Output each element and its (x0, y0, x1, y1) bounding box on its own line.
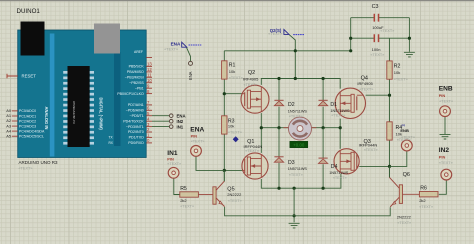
wire D4 column (322, 128, 324, 189)
svg-text:11: 11 (147, 73, 152, 78)
svg-text:ATMEGA328P-PU: ATMEGA328P-PU (72, 101, 76, 124)
svg-text:«TEXT»: «TEXT» (19, 167, 33, 171)
pin stub A4 (12, 130, 18, 132)
svg-text:ENA: ENA (171, 42, 181, 47)
svg-text:ARDUINO UNO R3: ARDUINO UNO R3 (19, 160, 59, 165)
svg-text:12: 12 (147, 67, 152, 72)
Arduino board body (18, 30, 147, 158)
svg-text:«TEXT»: «TEXT» (164, 48, 178, 52)
svg-text:ENB: ENB (439, 86, 453, 93)
svg-text:DUINO1: DUINO1 (17, 8, 41, 15)
svg-text:1N5711WS: 1N5711WS (330, 109, 350, 113)
svg-text:«TEXT»: «TEXT» (244, 83, 258, 87)
diode D4 (318, 158, 327, 163)
wire D2 column (278, 79, 280, 128)
svg-text:R1: R1 (229, 63, 236, 69)
svg-text:PC0/ADC0: PC0/ADC0 (19, 109, 36, 113)
pin stub A1 (12, 115, 18, 117)
wire arduino pin3 to IN1 (152, 126, 169, 128)
svg-text:C3: C3 (372, 4, 379, 10)
svg-text:IRFP044N: IRFP044N (359, 142, 378, 147)
wire ENA terminal to gate column (196, 156, 224, 170)
svg-text:PIN: PIN (439, 93, 446, 98)
terminal ENA top (default) (189, 61, 193, 65)
terminal IN2 (PIN) (441, 169, 452, 180)
svg-text:PC1/ADC1: PC1/ADC1 (19, 114, 36, 118)
wire ENA top terminal (186, 47, 190, 61)
wire R5 to Q5 base (198, 194, 213, 196)
svg-text:ENA: ENA (188, 71, 193, 80)
node D1 top junction (322, 77, 325, 80)
IC chip body (68, 66, 90, 147)
svg-text:«TEXT»: «TEXT» (289, 114, 303, 118)
svg-text:«TEXT»: «TEXT» (167, 162, 181, 166)
Arduino dark stripe (114, 52, 121, 146)
svg-text:A5: A5 (6, 133, 11, 138)
node motor right junction (339, 126, 342, 129)
svg-text:PIN: PIN (167, 157, 174, 162)
svg-text:PD0/RXD: PD0/RXD (128, 141, 144, 145)
pin stub 8 (146, 93, 152, 95)
svg-text:PC4/ADC4/SDA: PC4/ADC4/SDA (19, 129, 45, 133)
svg-text:1N5711WS: 1N5711WS (329, 171, 349, 175)
resistor R2 body (387, 61, 392, 79)
svg-text:IRF4905: IRF4905 (357, 81, 373, 86)
transistor Q3 (MOSFET) (334, 149, 359, 174)
svg-text:PC2/ADC2: PC2/ADC2 (19, 119, 36, 123)
transistor Q5 (NPN 2N2222) (213, 181, 225, 206)
svg-text:PIN: PIN (191, 133, 198, 138)
transistor Q4 (MOSFET) (335, 88, 365, 118)
wire Q1 gate (224, 169, 242, 171)
svg-text:«TEXT»: «TEXT» (359, 87, 373, 91)
wire D3 column (278, 128, 280, 189)
pin stub A0 (12, 110, 18, 112)
svg-text:«TEXT»: «TEXT» (333, 176, 347, 180)
node Q2 gate junction (223, 92, 226, 95)
svg-text:ENA: ENA (190, 126, 204, 133)
pin stub 1 (146, 136, 152, 138)
pin stub RESET (7, 74, 18, 78)
pin stub A5 (12, 135, 18, 137)
svg-text:1N5711WS: 1N5711WS (288, 109, 308, 113)
pin stub 5 (146, 115, 152, 117)
svg-text:PD7/AIN1: PD7/AIN1 (128, 103, 144, 107)
transistor Q1 (MOSFET) (242, 153, 268, 179)
svg-text:IN2: IN2 (439, 147, 450, 154)
resistor R5 body (180, 192, 199, 197)
svg-text:13: 13 (147, 62, 152, 67)
wire Q2 gate (224, 93, 242, 95)
svg-text:«TEXT»: «TEXT» (191, 140, 205, 144)
node D1 motor junction (322, 126, 325, 129)
svg-text:1N5711WS: 1N5711WS (288, 167, 308, 171)
transistor Q2 (MOSFET) (241, 85, 269, 113)
pin stub 2 (146, 131, 152, 133)
svg-text:«TEXT»: «TEXT» (397, 138, 411, 142)
svg-text:D1: D1 (330, 102, 337, 108)
wire C3 leads (351, 17, 410, 19)
wire probe drop (289, 35, 295, 79)
svg-text:AREF: AREF (134, 50, 143, 54)
wire right gate column (389, 38, 391, 177)
svg-text:IRF4905: IRF4905 (243, 76, 259, 81)
pin stub A2 (12, 120, 18, 122)
probe flag Q2(S) (284, 29, 289, 34)
resistor R1 body (222, 61, 227, 79)
svg-text:IN1: IN1 (177, 124, 184, 129)
svg-text:10k: 10k (394, 70, 400, 75)
node D2 motor junction (277, 126, 280, 129)
wire Q4 gate (366, 94, 390, 96)
diode D1 (318, 100, 327, 105)
svg-text:Q2: Q2 (248, 70, 255, 76)
svg-text:PIN: PIN (439, 154, 446, 159)
pin stub 4 (146, 120, 152, 122)
terminal ENB (PIN) (440, 106, 451, 117)
capacitor C3 (374, 14, 378, 22)
svg-text:PD1/TXD: PD1/TXD (129, 136, 145, 140)
terminal ENB net (PIN) (401, 140, 412, 151)
svg-text:Q6: Q6 (403, 172, 410, 178)
origin marker diamond (233, 136, 239, 142)
svg-text:PC5/ADC5/SCL: PC5/ADC5/SCL (19, 135, 44, 139)
wire C2 leads (351, 37, 410, 39)
wire top source rail (261, 79, 340, 89)
svg-text:PD2/INT0: PD2/INT0 (128, 130, 144, 134)
svg-text:10: 10 (147, 78, 152, 83)
wire Q6 collector link (389, 166, 391, 177)
svg-text:IN2: IN2 (177, 119, 184, 124)
wire R6 to Q6 base (403, 193, 420, 195)
pin stub 12 (146, 71, 152, 73)
node Q3 gate junction (388, 165, 391, 168)
svg-text:R6: R6 (420, 186, 427, 192)
wire IN2 to R6 (439, 180, 447, 194)
svg-text:«TEXT»: «TEXT» (397, 221, 411, 225)
wire emitter rail (225, 207, 391, 216)
node D4 bottom junction (322, 187, 325, 190)
node D2 top junction (277, 77, 280, 80)
svg-text:PB4/MISO: PB4/MISO (127, 70, 144, 74)
node motor left junction (260, 126, 263, 129)
wire arduino pin4 to IN2 (152, 120, 169, 122)
svg-text:«TEXT»: «TEXT» (331, 114, 345, 118)
svg-text:«TEXT»: «TEXT» (370, 53, 384, 57)
svg-text:~PD6/AIN0: ~PD6/AIN0 (126, 109, 144, 113)
terminal ENA (PIN) (191, 146, 202, 157)
node probe-source junction (294, 77, 297, 80)
svg-text:ENA: ENA (177, 114, 186, 119)
wire cap right column (408, 18, 410, 52)
wire motor right (311, 127, 340, 129)
wire label mark Q2(S) (293, 34, 304, 36)
node C2 left junction (349, 37, 352, 40)
wire ENB terminal to ground (444, 116, 446, 134)
svg-text:2N2222: 2N2222 (397, 214, 412, 219)
svg-text:PC3/ADC3: PC3/ADC3 (19, 124, 36, 128)
motor rpm display (290, 141, 308, 147)
wire motor left (261, 127, 288, 129)
svg-text:2k2: 2k2 (419, 198, 426, 203)
svg-text:2k2: 2k2 (180, 198, 187, 203)
svg-text:D2: D2 (288, 102, 295, 108)
terminal IN1 wire end (default) (169, 125, 173, 129)
svg-text:«TEXT»: «TEXT» (245, 149, 259, 153)
pin stub 10 (146, 82, 152, 84)
terminal IN2 wire end (default) (169, 119, 173, 123)
svg-text:D4: D4 (331, 164, 338, 170)
svg-text:R5: R5 (180, 186, 187, 192)
capacitor C2 (374, 34, 378, 42)
node probe-rail junction (294, 49, 297, 52)
wire arduino pin5 to ENA (152, 115, 169, 117)
node D3 bottom junction (277, 187, 280, 190)
svg-text:PB0/ICP1/CLKO: PB0/ICP1/CLKO (117, 92, 144, 96)
svg-text:~PB3/MOSI: ~PB3/MOSI (125, 76, 144, 80)
resistor R6 body (419, 192, 438, 197)
pin stub 0 (146, 142, 152, 144)
pin stub 11 (146, 76, 152, 78)
pin stub 3 (146, 126, 152, 128)
pin stub 7 (146, 104, 152, 106)
svg-text:+0.00: +0.00 (293, 142, 305, 147)
USB connector (21, 22, 45, 56)
wire IN1 to R5 (174, 178, 180, 194)
svg-text:«TEXT»: «TEXT» (380, 29, 394, 33)
svg-text:«TEXT»: «TEXT» (394, 78, 408, 82)
node Q4 gate junction (388, 94, 391, 97)
node C2 right junction (408, 37, 411, 40)
svg-text:«TEXT»: «TEXT» (180, 204, 194, 208)
pin stub 6 (146, 109, 152, 111)
svg-text:D3: D3 (288, 160, 295, 166)
svg-text:«TEXT»: «TEXT» (289, 173, 303, 177)
chip pins (63, 71, 94, 145)
svg-text:ANALOG IN: ANALOG IN (44, 107, 49, 130)
svg-text:~PB1: ~PB1 (135, 86, 144, 90)
wire label mark ENA (189, 44, 202, 46)
svg-text:~PB2/SS: ~PB2/SS (129, 81, 144, 85)
ground symbol top right (404, 52, 415, 57)
wire ground drop (293, 188, 295, 222)
svg-text:«TEXT»: «TEXT» (268, 32, 282, 36)
node rail cap junction (349, 49, 352, 52)
svg-text:DIGITAL (~PWM): DIGITAL (~PWM) (99, 98, 104, 131)
svg-text:«TEXT»: «TEXT» (439, 161, 453, 165)
wire sources rail (261, 174, 341, 188)
svg-text:100n: 100n (372, 47, 381, 52)
wire left drain column (260, 113, 262, 153)
pin stub AREF (146, 57, 152, 59)
svg-text:2N2222: 2N2222 (227, 192, 242, 197)
ground symbol ENB (440, 134, 451, 139)
svg-text:«TEXT»: «TEXT» (229, 76, 243, 80)
pin stub A3 (12, 125, 18, 127)
wire Q5 collector link (223, 170, 225, 181)
node gnd drop junction (293, 187, 296, 190)
Arduino blue stripe (50, 34, 55, 157)
svg-text:PB5/SCK: PB5/SCK (129, 65, 145, 69)
wire Q3 gate (359, 165, 389, 167)
probe flag ENA (182, 42, 187, 47)
svg-text:PD4/T0/XCK: PD4/T0/XCK (123, 119, 144, 123)
node Q1 gate junction (223, 169, 226, 172)
svg-text:~PD5/T1: ~PD5/T1 (130, 114, 144, 118)
wire right drain column (339, 119, 341, 149)
terminal IN1 (PIN) (168, 167, 179, 178)
svg-text:«TEXT»: «TEXT» (439, 99, 453, 103)
pin stub 13 (146, 65, 152, 67)
wire cap left column (350, 18, 352, 51)
svg-text:RESET: RESET (22, 74, 37, 79)
wire D1 column (322, 79, 324, 128)
resistor R4 body (387, 122, 392, 140)
motor M1 (283, 117, 316, 140)
ground symbol bottom (289, 223, 300, 228)
wire ENB net terminal link (390, 151, 407, 167)
svg-text:~PD3/INT1: ~PD3/INT1 (126, 125, 144, 129)
svg-text:«TEXT»: «TEXT» (419, 205, 433, 209)
svg-text:R2: R2 (394, 63, 401, 69)
transistor Q6 (NPN 2N2222) (390, 177, 403, 207)
diode D3 (274, 157, 283, 162)
svg-text:«TEXT»: «TEXT» (228, 130, 242, 134)
pin stub 9 (146, 87, 152, 89)
terminal ENA wire end (default) (169, 114, 173, 118)
wire +12V rail (224, 50, 350, 52)
resistor R3 body (222, 116, 227, 134)
power connector (94, 24, 120, 54)
wire left gate column (223, 51, 225, 182)
svg-text:10k: 10k (228, 124, 234, 129)
svg-text:10k: 10k (229, 69, 235, 74)
svg-text:«TEXT»: «TEXT» (364, 148, 378, 152)
node emitter rail junction (293, 214, 296, 217)
svg-text:«TEXT»: «TEXT» (228, 199, 242, 203)
diode D2 (274, 100, 283, 105)
